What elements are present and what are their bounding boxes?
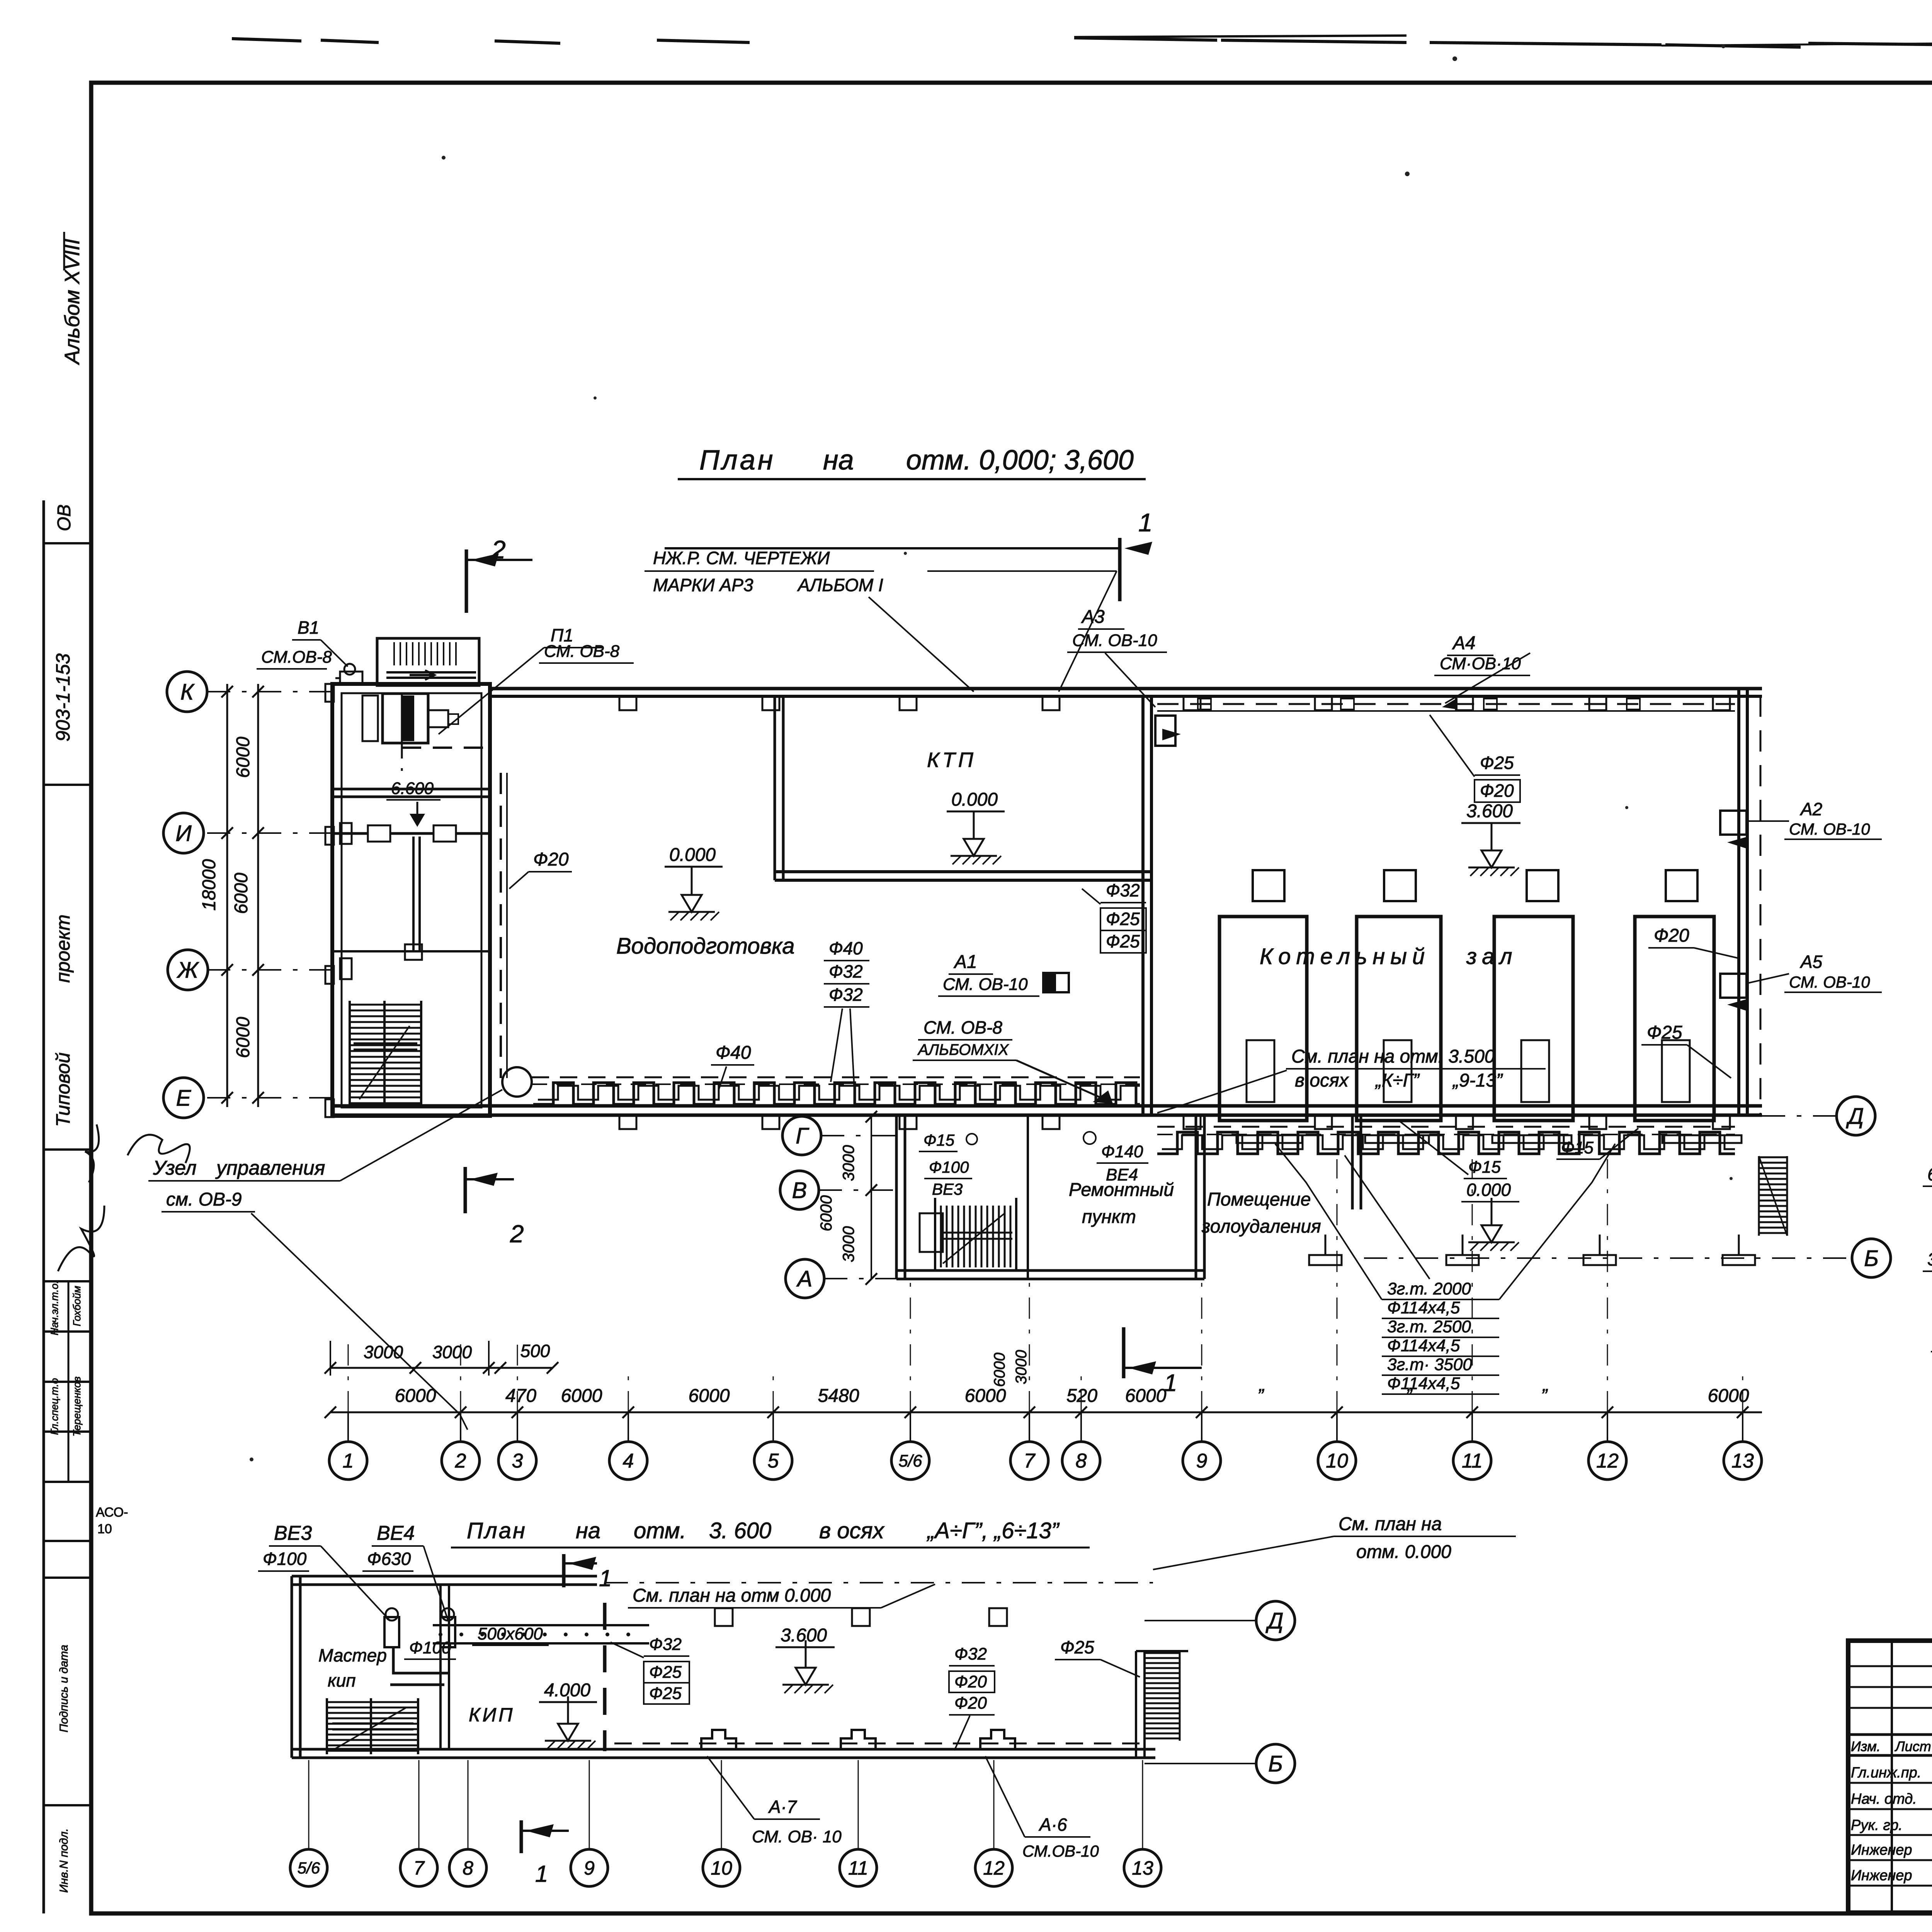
svg-text:В: В <box>792 1178 807 1203</box>
f100 elbow pipe <box>393 1647 448 1673</box>
svg-text:Ф32: Ф32 <box>954 1645 987 1663</box>
grid circle 8 lower <box>449 1849 486 1886</box>
svg-text:См. план на отм. 3.500: См. план на отм. 3.500 <box>1291 1046 1495 1067</box>
svg-text:6000: 6000 <box>965 1386 1006 1406</box>
svg-text:Ф25: Ф25 <box>649 1684 682 1703</box>
svg-text:зал: зал <box>1466 944 1518 969</box>
tower bottom wall <box>332 1104 490 1108</box>
svg-text:”: ” <box>1406 1386 1413 1406</box>
svg-text:Ф25: Ф25 <box>1106 909 1140 929</box>
svg-text:5480: 5480 <box>818 1386 859 1406</box>
grid circle E <box>163 1078 204 1118</box>
ash room right wall <box>1351 1116 1354 1209</box>
grid circle 12 lower <box>975 1849 1012 1886</box>
lower plan outer walls <box>291 1576 293 1758</box>
svg-text:Гохбойм: Гохбойм <box>71 1286 83 1327</box>
axis dash-dot along top of right part <box>605 1582 1153 1583</box>
svg-text:Инв.N подл.: Инв.N подл. <box>58 1828 70 1893</box>
svg-text:А·7: А·7 <box>768 1797 797 1817</box>
grid circle 2 <box>442 1442 480 1480</box>
grid circle V <box>780 1171 819 1209</box>
svg-text:А5: А5 <box>1799 952 1823 972</box>
svg-text:СМ.ОВ-10: СМ.ОВ-10 <box>1022 1842 1099 1860</box>
svg-text:Котельный: Котельный <box>1260 944 1430 969</box>
svg-text:в осях: в осях <box>1295 1070 1349 1091</box>
svg-text:А1: А1 <box>953 952 977 972</box>
svg-text:0.000: 0.000 <box>1466 1180 1511 1200</box>
svg-text:12: 12 <box>1596 1450 1619 1472</box>
svg-text:Ф32: Ф32 <box>829 961 863 981</box>
grid circle 7 lower <box>400 1849 437 1886</box>
grid circle 11 <box>1453 1442 1491 1480</box>
svg-text:Ф20: Ф20 <box>954 1672 987 1691</box>
grid circle 7 <box>1010 1442 1048 1480</box>
grid circle I <box>163 813 204 853</box>
svg-text:Ф40: Ф40 <box>716 1043 751 1063</box>
svg-text:отм.: отм. <box>634 1518 686 1543</box>
svg-text:СМ. ОВ-10: СМ. ОВ-10 <box>1072 631 1157 650</box>
svg-text:Г: Г <box>796 1123 810 1148</box>
svg-text:3г.т. 2500: 3г.т. 2500 <box>1387 1317 1471 1336</box>
boiler 2 <box>1357 917 1441 1121</box>
svg-text:Изм.: Изм. <box>1851 1738 1881 1754</box>
svg-text:3. 600: 3. 600 <box>709 1518 771 1543</box>
annex wall between stair and repair room <box>1027 1116 1029 1279</box>
svg-text:”: ” <box>1541 1386 1548 1406</box>
dashed pipe along bottom wall <box>614 1743 1144 1745</box>
svg-text:470: 470 <box>505 1386 536 1406</box>
svg-text:”: ” <box>1257 1386 1264 1406</box>
svg-text:Гл.спец.т.о: Гл.спец.т.о <box>49 1378 60 1435</box>
svg-text:Д: Д <box>1846 1104 1864 1129</box>
svg-text:КИП: КИП <box>469 1704 515 1726</box>
svg-text:Ф32: Ф32 <box>649 1635 682 1654</box>
svg-text:Ф25: Ф25 <box>1060 1637 1094 1657</box>
svg-text:Ф630: Ф630 <box>367 1549 411 1569</box>
title block left table <box>1891 1641 1893 1913</box>
svg-text:Типовой: Типовой <box>52 1053 74 1127</box>
scan streak artifacts top edge <box>232 36 1932 47</box>
dim row A (3000 3000 500) <box>330 1367 553 1369</box>
section mark 1 (bottom, lower plan) <box>520 1820 523 1853</box>
grid circle D right <box>1837 1097 1875 1135</box>
svg-text:Е: Е <box>176 1085 192 1111</box>
grid circle 9 lower <box>571 1849 608 1886</box>
svg-text:1: 1 <box>343 1450 354 1472</box>
grid circle 10 lower <box>703 1849 740 1886</box>
svg-text:9: 9 <box>1196 1450 1207 1472</box>
tower wall column ticks <box>325 684 334 702</box>
svg-text:6000: 6000 <box>233 1017 253 1058</box>
boiler 4 <box>1635 917 1714 1121</box>
svg-text:АЛЬБОМ I: АЛЬБОМ I <box>797 575 883 595</box>
floor hatch squares above boilers <box>1253 870 1284 901</box>
svg-text:СМ. ОВ· 10: СМ. ОВ· 10 <box>752 1827 842 1846</box>
svg-text:10: 10 <box>97 1522 112 1536</box>
svg-text:Инженер: Инженер <box>1851 1842 1912 1858</box>
grid circle 1 <box>329 1442 367 1480</box>
svg-text:А: А <box>796 1266 813 1291</box>
svg-text:6000: 6000 <box>1125 1386 1167 1406</box>
grid circle 10 <box>1318 1442 1356 1480</box>
svg-text:Ф15: Ф15 <box>923 1131 955 1149</box>
bottom wall pipe bumps <box>701 1730 736 1749</box>
A3 device at boiler hall top-left <box>1155 716 1175 746</box>
svg-text:3г.т. 2000: 3г.т. 2000 <box>1387 1279 1471 1298</box>
svg-text:золоудаления: золоудаления <box>1201 1216 1321 1237</box>
tower vestibule (upper stair) <box>377 638 479 685</box>
svg-text:Терещенков: Терещенков <box>71 1376 83 1436</box>
svg-text:Ф25: Ф25 <box>1106 931 1140 951</box>
stair tower outer walls <box>332 684 490 1116</box>
svg-text:6000: 6000 <box>233 736 253 778</box>
svg-text:„К÷Г”: „К÷Г” <box>1375 1070 1420 1091</box>
svg-text:Рук. гр.: Рук. гр. <box>1851 1817 1903 1833</box>
annex rotated dims <box>871 1117 872 1279</box>
svg-text:СМ. ОВ-10: СМ. ОВ-10 <box>1789 973 1870 991</box>
svg-text:Ф20: Ф20 <box>1480 781 1514 801</box>
section cut mark 1 (bottom of main plan) <box>1122 1327 1126 1378</box>
roof devices VE3 VE4 <box>384 1617 399 1647</box>
tower floor split wall y2040 <box>332 788 490 791</box>
svg-text:13: 13 <box>1132 1857 1153 1879</box>
grid circle D lower <box>1256 1601 1295 1640</box>
svg-text:3000: 3000 <box>432 1342 472 1362</box>
grid circle 5 <box>754 1442 792 1480</box>
grid circle Zh <box>168 950 208 990</box>
right wall devices A2 A5 <box>1720 811 1747 835</box>
boiler 3 <box>1494 917 1573 1121</box>
grid circle 13 lower <box>1124 1849 1161 1886</box>
svg-text:Нач. отд.: Нач. отд. <box>1851 1791 1917 1807</box>
svg-text:Ф15: Ф15 <box>1561 1138 1594 1157</box>
svg-text:А2: А2 <box>1799 799 1822 819</box>
svg-text:6,600: 6,600 <box>1927 1164 1932 1184</box>
svg-text:520: 520 <box>1066 1386 1097 1406</box>
svg-text:Подпись и дата: Подпись и дата <box>58 1645 70 1733</box>
svg-text:АЛЬБОМXIX: АЛЬБОМXIX <box>917 1041 1009 1058</box>
svg-text:7: 7 <box>413 1857 425 1879</box>
svg-text:Ф100: Ф100 <box>409 1638 451 1657</box>
svg-text:СМ·ОВ·10: СМ·ОВ·10 <box>1440 654 1521 673</box>
svg-text:Ф20: Ф20 <box>533 849 569 870</box>
svg-text:„А÷Г”, „6÷13”: „А÷Г”, „6÷13” <box>926 1518 1060 1543</box>
svg-text:Ж: Ж <box>176 957 199 983</box>
svg-text:7: 7 <box>1024 1450 1036 1472</box>
svg-text:3: 3 <box>512 1450 523 1472</box>
main hall right wall <box>1737 689 1740 1116</box>
handwritten small marks left of sheet <box>128 1135 190 1163</box>
svg-text:см. ОВ-9: см. ОВ-9 <box>166 1189 242 1210</box>
svg-text:Ф25: Ф25 <box>1647 1022 1682 1043</box>
svg-text:Ф140: Ф140 <box>1101 1142 1143 1161</box>
svg-text:500х600: 500х600 <box>478 1624 543 1643</box>
column footings on row B <box>1325 1235 1327 1255</box>
svg-text:кип: кип <box>328 1670 356 1690</box>
svg-text:Ф20: Ф20 <box>954 1694 987 1713</box>
svg-text:А·6: А·6 <box>1038 1815 1067 1835</box>
svg-text:Б: Б <box>1268 1751 1283 1776</box>
left margin signature scribbles <box>58 1206 104 1271</box>
svg-text:Ф32: Ф32 <box>1106 880 1140 900</box>
zigzag heating main (left, above wall) <box>502 1067 532 1097</box>
svg-text:1: 1 <box>1164 1370 1177 1396</box>
svg-text:903-1-153: 903-1-153 <box>52 653 74 742</box>
svg-text:на: на <box>823 445 854 476</box>
dashed partition x1565 <box>603 1603 607 1751</box>
svg-text:18000: 18000 <box>199 859 219 911</box>
svg-text:А3: А3 <box>1081 607 1105 627</box>
svg-text:Ф100: Ф100 <box>263 1549 307 1569</box>
annex bottom wall (row A) <box>896 1269 1204 1272</box>
boiler 1 <box>1219 917 1307 1121</box>
svg-text:6000: 6000 <box>561 1386 602 1406</box>
svg-text:управления: управления <box>215 1157 325 1179</box>
grid circle 5/6 <box>891 1442 929 1480</box>
svg-text:Гл.инж.пр.: Гл.инж.пр. <box>1851 1765 1921 1781</box>
outside stair right <box>1759 1156 1787 1158</box>
dashed duct from fan <box>402 747 491 749</box>
tower fan unit room <box>383 694 428 743</box>
svg-text:8: 8 <box>463 1857 473 1879</box>
grid circle 12 <box>1588 1442 1626 1480</box>
svg-text:Водоподготовка: Водоподготовка <box>616 934 795 959</box>
svg-text:0.000: 0.000 <box>669 845 716 865</box>
svg-text:ВЕ3: ВЕ3 <box>274 1522 312 1544</box>
svg-text:6000: 6000 <box>395 1386 436 1406</box>
svg-text:Ф25: Ф25 <box>1480 753 1514 773</box>
svg-text:3000: 3000 <box>364 1342 403 1362</box>
svg-text:См. план на: См. план на <box>1338 1514 1442 1534</box>
grid circle K <box>167 672 207 712</box>
left vertical dimension lines <box>226 684 228 1107</box>
svg-text:6000: 6000 <box>689 1386 730 1406</box>
section cut mark 2 (top) <box>465 549 468 613</box>
svg-text:2: 2 <box>510 1220 524 1248</box>
dashed pipe below top wall <box>1157 703 1735 705</box>
svg-text:Узел: Узел <box>153 1157 197 1179</box>
title block outer <box>1848 1641 1932 1913</box>
svg-text:См. план на отм 0.000: См. план на отм 0.000 <box>633 1585 831 1606</box>
grid circle 4 <box>609 1442 647 1480</box>
svg-text:3000: 3000 <box>1013 1350 1030 1384</box>
svg-text:3000: 3000 <box>839 1145 857 1181</box>
svg-text:6000: 6000 <box>817 1195 835 1231</box>
dim row B main <box>330 1412 1762 1413</box>
svg-text:СМ. ОВ-10: СМ. ОВ-10 <box>1789 820 1870 838</box>
svg-text:6000: 6000 <box>231 872 252 914</box>
svg-text:5: 5 <box>768 1450 779 1472</box>
svg-text:10: 10 <box>1326 1450 1348 1472</box>
svg-text:12: 12 <box>983 1857 1005 1879</box>
svg-text:9: 9 <box>584 1857 595 1879</box>
svg-text:Ф15: Ф15 <box>1468 1158 1501 1177</box>
duct 500x600 <box>433 1624 649 1626</box>
svg-text:проект: проект <box>52 915 74 983</box>
svg-text:Б: Б <box>1864 1246 1879 1271</box>
svg-text:Ф114х4,5: Ф114х4,5 <box>1387 1298 1460 1317</box>
svg-text:5/6: 5/6 <box>898 1451 922 1470</box>
svg-text:МАРКИ АР3: МАРКИ АР3 <box>653 575 753 595</box>
svg-text:ВЕ4: ВЕ4 <box>377 1522 415 1544</box>
grid circle A <box>786 1259 824 1298</box>
svg-text:Лист: Лист <box>1895 1738 1931 1754</box>
svg-text:План: План <box>467 1518 527 1543</box>
lower stair <box>327 1701 418 1703</box>
svg-text:отм. 0,000; 3,600: отм. 0,000; 3,600 <box>906 445 1134 476</box>
annex left wall <box>895 1116 898 1279</box>
svg-text:СМ. ОВ-8: СМ. ОВ-8 <box>923 1017 1002 1037</box>
svg-text:ВЕ4: ВЕ4 <box>1106 1165 1138 1184</box>
svg-text:Инженер: Инженер <box>1851 1867 1912 1884</box>
svg-text:3,300: 3,300 <box>1927 1249 1932 1269</box>
svg-text:Ф100: Ф100 <box>929 1158 969 1176</box>
svg-text:И: И <box>175 821 192 846</box>
svg-text:Ф114х4,5: Ф114х4,5 <box>1387 1336 1460 1355</box>
svg-text:Нач.эл.т.о.: Нач.эл.т.о. <box>49 1281 60 1335</box>
f20 riser dashed pipe along tower wall <box>500 773 502 1078</box>
svg-text:Ф25: Ф25 <box>649 1663 682 1682</box>
svg-text:СМ.ОВ-8: СМ.ОВ-8 <box>261 648 332 667</box>
svg-text:на: на <box>576 1518 600 1543</box>
grid circle 13 <box>1724 1442 1762 1480</box>
bottom wall of hall (row E/D) <box>490 1104 1762 1108</box>
svg-text:Ф32: Ф32 <box>829 985 863 1005</box>
svg-text:5/6: 5/6 <box>298 1859 320 1877</box>
section cut mark 1 (top) <box>1118 538 1122 601</box>
svg-text:4: 4 <box>623 1450 634 1472</box>
svg-text:500: 500 <box>520 1341 550 1361</box>
grid circle 5/6 lower <box>290 1849 327 1886</box>
grid circle B right <box>1852 1239 1891 1277</box>
svg-text:СМ. ОВ-8: СМ. ОВ-8 <box>544 642 620 661</box>
svg-text:3.600: 3.600 <box>781 1625 827 1646</box>
KTP room walls <box>774 696 776 880</box>
svg-text:2: 2 <box>491 535 506 564</box>
svg-text:1: 1 <box>599 1565 612 1591</box>
svg-text:1: 1 <box>1138 508 1153 537</box>
svg-text:НЖ.Р. СМ. ЧЕРТЕЖИ: НЖ.Р. СМ. ЧЕРТЕЖИ <box>653 548 830 568</box>
svg-text:3г.т· 3500: 3г.т· 3500 <box>1387 1355 1472 1374</box>
repair room right wall <box>1195 1116 1197 1279</box>
tower mid walls <box>332 832 367 835</box>
grid circle G <box>782 1116 821 1155</box>
zigzag heating main (right, below wall) <box>1157 1126 1735 1128</box>
axis extension lines up into plan <box>348 1341 349 1412</box>
scan specks <box>442 156 446 160</box>
svg-text:6000: 6000 <box>991 1353 1008 1387</box>
svg-text:2: 2 <box>455 1450 466 1472</box>
left margin stamp column <box>43 500 45 1913</box>
grid circle 3 <box>498 1442 536 1480</box>
svg-text:пункт: пункт <box>1082 1207 1136 1227</box>
svg-text:План: План <box>699 445 775 476</box>
svg-text:1: 1 <box>535 1861 548 1887</box>
svg-text:0.000: 0.000 <box>951 789 998 810</box>
svg-text:отм. 0.000: отм. 0.000 <box>1356 1542 1451 1562</box>
svg-text:11: 11 <box>1462 1450 1483 1472</box>
svg-text:13: 13 <box>1731 1450 1754 1472</box>
grid circle 9 <box>1183 1442 1221 1480</box>
svg-text:Ф20: Ф20 <box>1654 925 1689 946</box>
svg-text:Помещение: Помещение <box>1207 1189 1311 1210</box>
svg-text:СМ. ОВ-10: СМ. ОВ-10 <box>943 975 1028 994</box>
svg-text:ВЕ3: ВЕ3 <box>932 1180 963 1198</box>
B1 intake device <box>340 672 362 685</box>
tower lower stair flight <box>350 1004 421 1006</box>
svg-text:3000: 3000 <box>839 1226 857 1262</box>
svg-text:Ф114х4,5: Ф114х4,5 <box>1387 1374 1460 1393</box>
svg-text:АСО-: АСО- <box>96 1505 128 1520</box>
svg-text:3.600: 3.600 <box>1466 801 1513 821</box>
lower plan right stair <box>1135 1651 1137 1758</box>
svg-text:В1: В1 <box>298 617 319 638</box>
svg-text:А4: А4 <box>1452 633 1476 653</box>
svg-text:6.600: 6.600 <box>391 779 434 798</box>
lower plan section mark 1 (top) <box>562 1554 566 1587</box>
grid circle 11 lower <box>840 1849 877 1886</box>
svg-text:10: 10 <box>711 1857 732 1879</box>
A1 device on plan <box>1043 973 1069 992</box>
svg-text:Д: Д <box>1265 1608 1284 1633</box>
svg-text:8: 8 <box>1076 1450 1087 1472</box>
svg-text:„9-13”: „9-13” <box>1452 1070 1503 1091</box>
svg-text:Мастер: Мастер <box>318 1645 387 1665</box>
svg-text:Ф40: Ф40 <box>829 938 863 958</box>
annex stair <box>934 1206 936 1267</box>
section cut mark 2 (bottom) <box>464 1167 467 1213</box>
grid circle B lower <box>1256 1744 1295 1783</box>
main hall top wall <box>490 687 1762 690</box>
svg-text:ОВ: ОВ <box>54 504 75 531</box>
grid circle 8 <box>1062 1442 1100 1480</box>
svg-text:К: К <box>180 679 195 704</box>
svg-text:КТП: КТП <box>927 748 976 772</box>
svg-text:в осях: в осях <box>819 1518 885 1543</box>
svg-text:11: 11 <box>848 1857 868 1879</box>
